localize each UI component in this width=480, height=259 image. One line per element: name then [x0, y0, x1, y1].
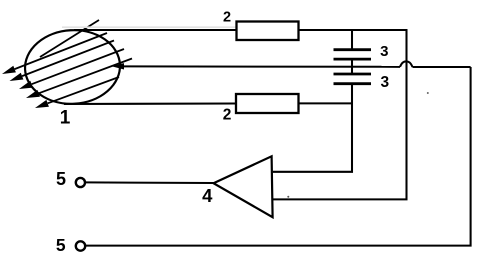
sensor element U1 (ellipse body) — [23, 28, 122, 106]
wire: bottom resistor to node Y — [299, 102, 353, 104]
svg-text:3: 3 — [380, 74, 389, 91]
terminal 5 (output circle) — [76, 178, 85, 187]
wire: middle electrode net to bottom terminal — [85, 67, 470, 246]
svg-text:2: 2 — [223, 10, 231, 26]
scan speck right of capacitors — [427, 92, 429, 94]
capacitor 3 (lower) — [334, 74, 372, 84]
wire: top resistor to node X — [299, 29, 408, 31]
radiation ray arrow a5 — [35, 77, 119, 108]
resistor 2 (top) — [237, 22, 299, 41]
wire: bottom electrode to resistor R2b — [64, 102, 236, 105]
op-amp 4 (triangle) — [214, 156, 273, 217]
radiation ray a6 (steep, crossing top wire) — [40, 20, 99, 57]
terminal 5 (common circle) — [76, 241, 85, 250]
scan speck near amplifier — [287, 196, 289, 198]
wire: node X down to capacitor C3a — [351, 30, 353, 50]
wire: node X down (crossing middle wire) and left to amplifier input — [273, 30, 407, 199]
wire: capacitor C3a lower plate through middle wire to C3b — [351, 59, 353, 74]
svg-text:2: 2 — [223, 106, 232, 123]
radiation ray arrow a2 — [10, 41, 115, 82]
radiation ray arrow a1 — [2, 33, 107, 74]
svg-text:5: 5 — [56, 169, 66, 189]
wire: middle electrode to hop — [120, 65, 400, 67]
wire: node Y down and left to amplifier input — [273, 103, 352, 171]
svg-text:1: 1 — [60, 108, 71, 129]
scan smear above top wire — [62, 26, 248, 28]
wire: hop to right edge — [413, 66, 471, 68]
radiation ray arrow a3 — [19, 49, 124, 89]
wire: capacitor C3b lower plate down to node Y — [351, 84, 353, 104]
svg-text:3: 3 — [380, 43, 388, 60]
wire: amplifier output to terminal 5 — [85, 181, 213, 184]
middle electrode contact arrow — [112, 63, 125, 69]
svg-text:4: 4 — [202, 185, 213, 206]
wire hop over vertical branch — [400, 61, 413, 67]
capacitor 3 (upper) — [334, 50, 372, 59]
svg-text:5: 5 — [56, 235, 66, 255]
radiation ray arrow a4 — [26, 59, 132, 99]
wire: top electrode to resistor R2a — [74, 29, 237, 31]
resistor 2 (bottom) — [236, 94, 299, 113]
